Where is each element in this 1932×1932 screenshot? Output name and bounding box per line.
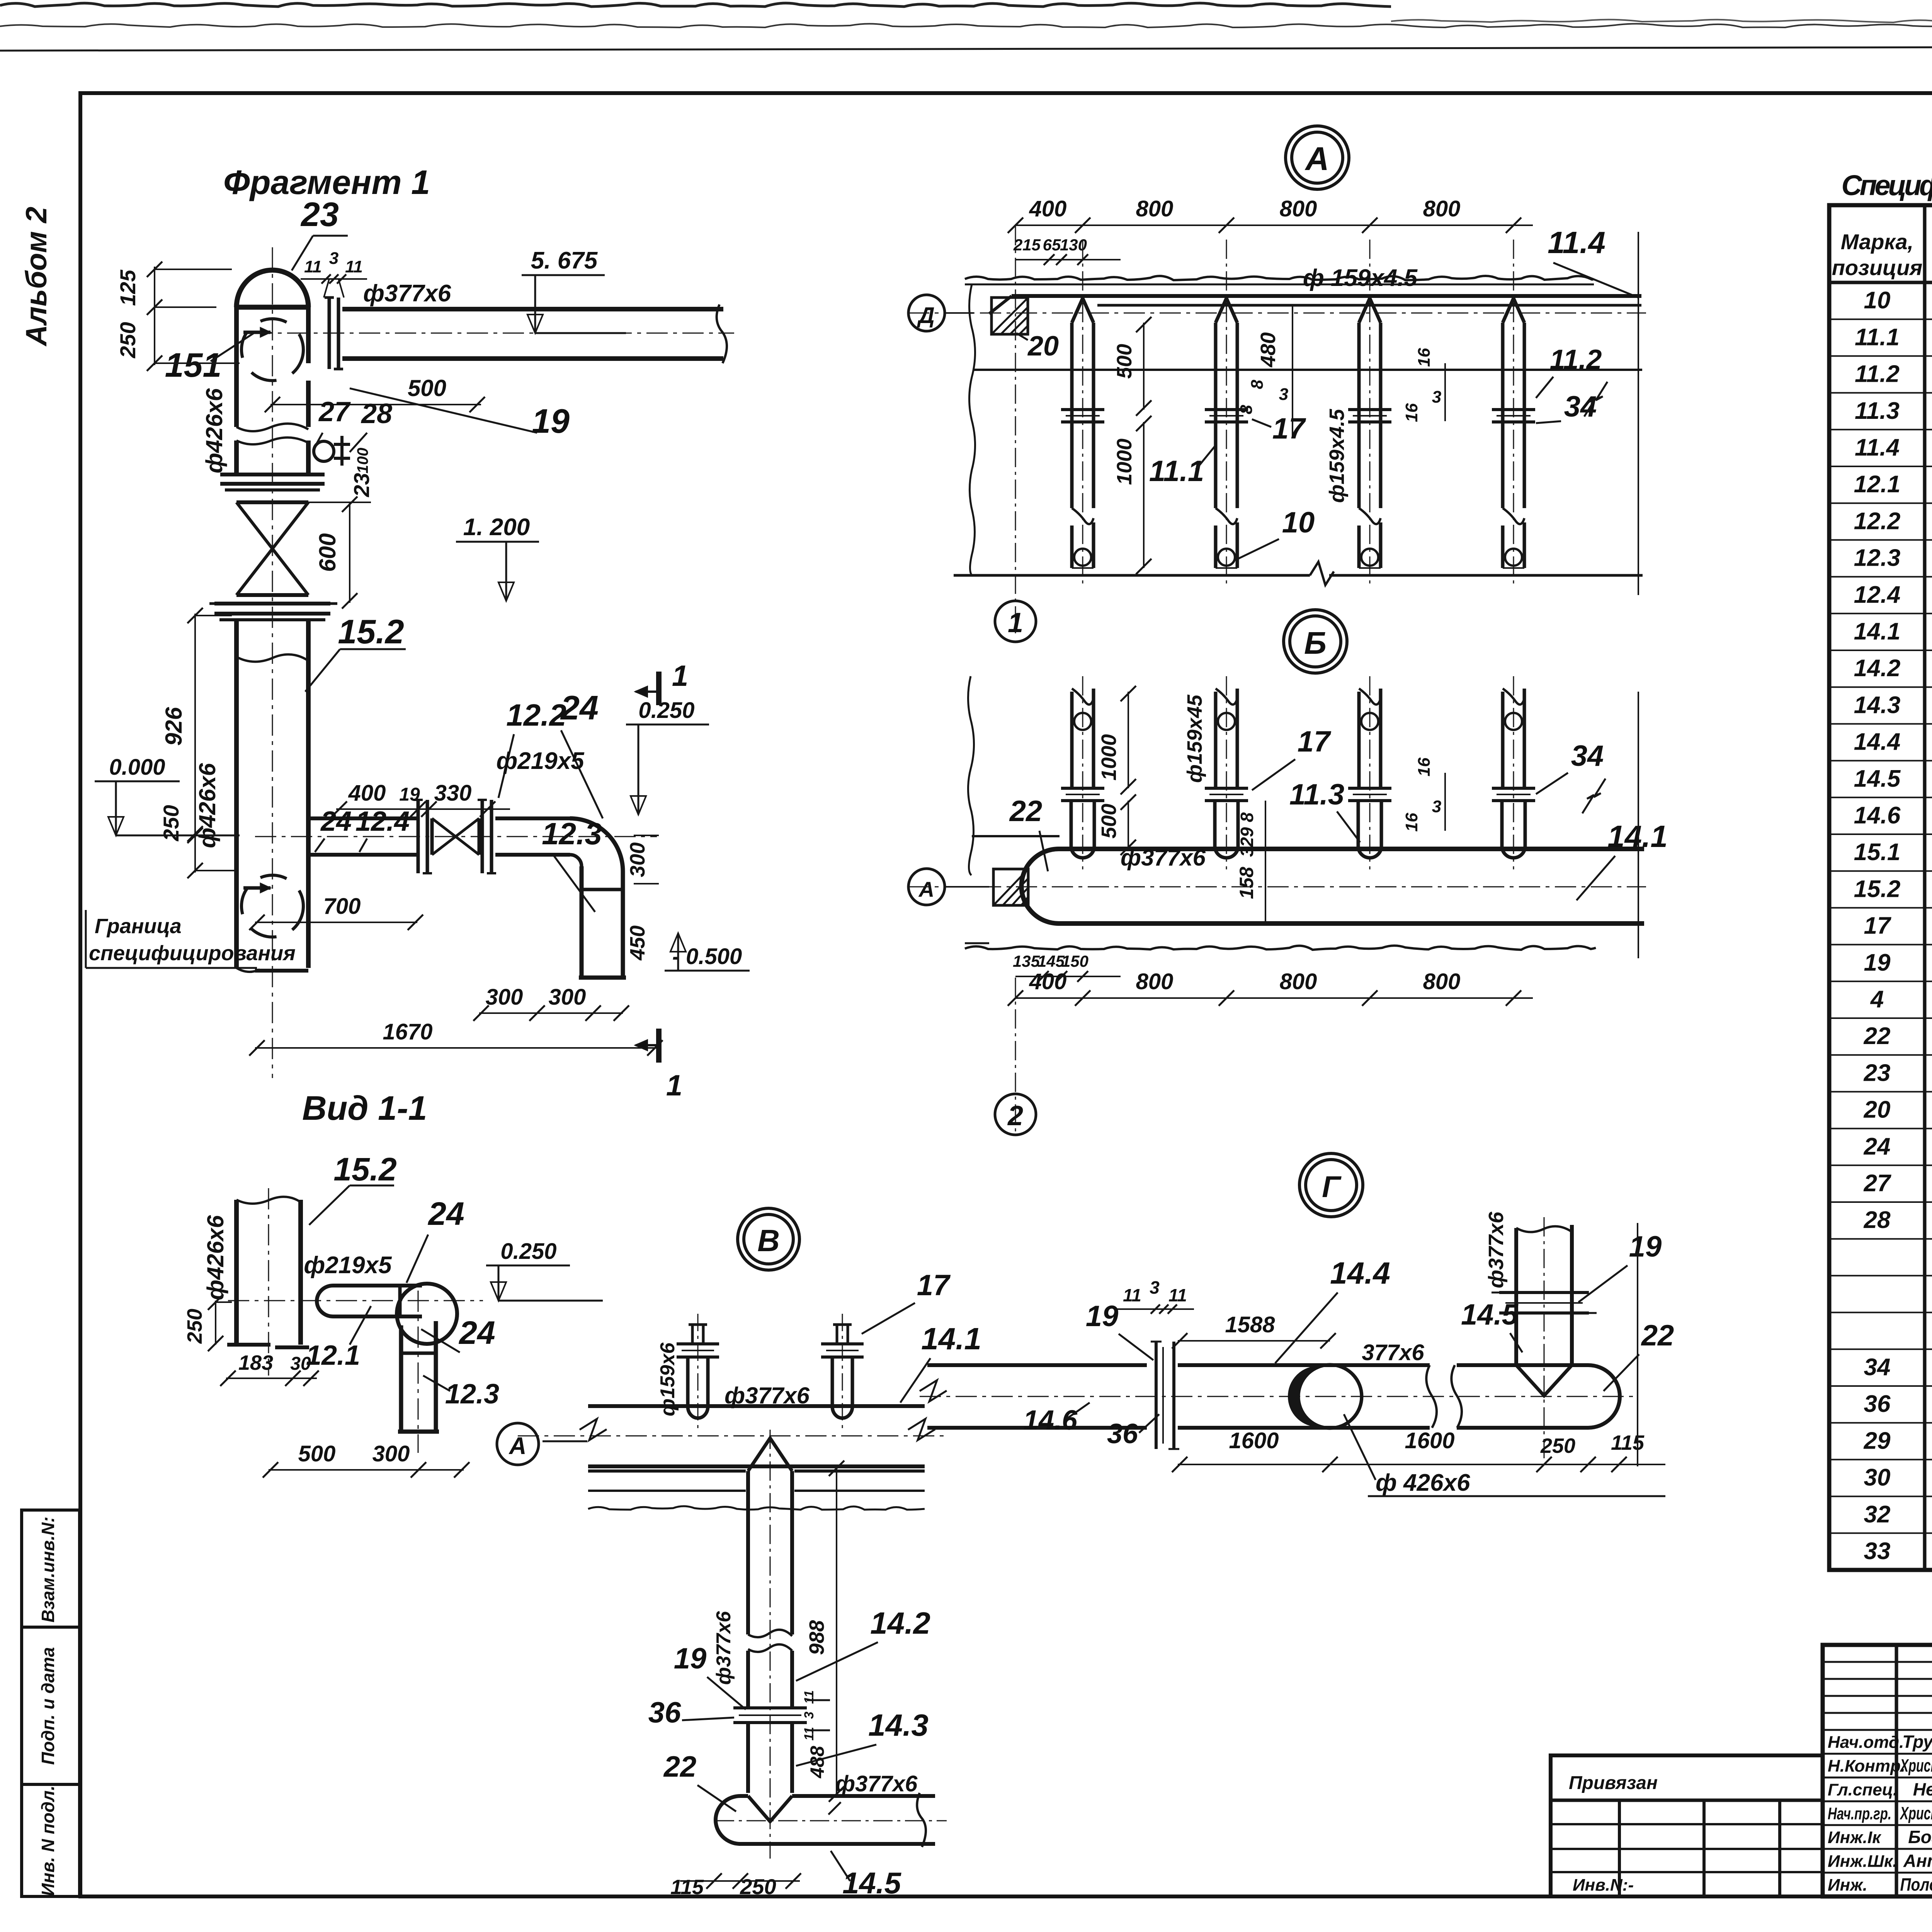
svg-text:1600: 1600 <box>1405 1428 1454 1453</box>
node A collector 159 <box>989 296 1641 314</box>
spec table header <box>1832 215 1932 280</box>
svg-text:1: 1 <box>1008 607 1023 638</box>
svg-text:0.000: 0.000 <box>109 755 165 780</box>
node B label 14.1 <box>1577 819 1668 900</box>
node V centerline stub <box>543 1440 587 1442</box>
dim 600 <box>308 497 371 609</box>
node V lower wall lines <box>588 1471 925 1510</box>
swirl circle bottom <box>241 875 303 937</box>
svg-text:Граница: Граница <box>95 915 182 938</box>
svg-text:500: 500 <box>298 1441 336 1466</box>
svg-text:11.4: 11.4 <box>1548 225 1605 260</box>
branch pipe 12.4 <box>308 818 417 855</box>
svg-text:- 0.500: - 0.500 <box>672 944 742 969</box>
svg-text:19: 19 <box>1629 1230 1662 1263</box>
node G left pipe 14.6 <box>920 1365 1147 1428</box>
svg-text:8: 8 <box>1248 379 1267 389</box>
svg-text:34: 34 <box>1864 1354 1891 1381</box>
torn paper edge top <box>0 3 1932 27</box>
svg-text:Взам.инв.N:: Взам.инв.N: <box>38 1517 58 1622</box>
svg-text:36: 36 <box>1107 1418 1138 1449</box>
svg-text:ф426х6: ф426х6 <box>202 1215 228 1300</box>
svg-text:Г: Г <box>1322 1170 1342 1204</box>
svg-text:Антонова: Антонова <box>1903 1850 1932 1871</box>
svg-text:11: 11 <box>1168 1285 1187 1305</box>
svg-text:22: 22 <box>1864 1023 1891 1049</box>
svg-text:300: 300 <box>486 985 523 1010</box>
node A label 34 <box>1536 390 1597 423</box>
svg-text:Полоновская: Полоновская <box>1900 1874 1932 1895</box>
svg-text:ф159х6: ф159х6 <box>656 1342 679 1417</box>
node V label 17 <box>862 1269 951 1334</box>
node A break z right <box>1584 382 1607 417</box>
svg-text:3: 3 <box>329 249 338 268</box>
svg-text:14.2: 14.2 <box>1854 655 1901 682</box>
svg-text:ф377х6: ф377х6 <box>835 1771 918 1796</box>
svg-text:Нечаева: Нечаева <box>1913 1779 1932 1799</box>
svg-text:14.4: 14.4 <box>1854 729 1901 755</box>
svg-text:11.1: 11.1 <box>1149 455 1204 488</box>
svg-text:3: 3 <box>1279 385 1288 404</box>
node B marker circle 2 <box>995 1094 1036 1135</box>
node B riser 3 <box>1348 676 1391 869</box>
svg-text:24: 24 <box>320 806 352 837</box>
node A labels 16 3 16 right <box>1402 348 1445 422</box>
node A riser 2 <box>1205 240 1248 587</box>
svg-text:23: 23 <box>349 473 374 497</box>
svg-text:988: 988 <box>805 1620 828 1655</box>
svg-text:14.1: 14.1 <box>1854 618 1901 645</box>
svg-text:500: 500 <box>1097 804 1121 838</box>
node G centerlines <box>920 1396 1638 1397</box>
svg-text:12.1: 12.1 <box>1854 471 1901 498</box>
node G dims bottom <box>1172 1428 1665 1472</box>
node A dims 215 65 130 <box>1013 236 1121 265</box>
svg-text:300: 300 <box>549 985 586 1010</box>
label ф426х6 lower <box>194 763 220 848</box>
node V label f377 rotated <box>713 1611 735 1685</box>
svg-text:27: 27 <box>318 396 351 427</box>
node G label 19 right <box>1578 1230 1662 1302</box>
svg-text:12.3: 12.3 <box>1854 545 1901 571</box>
svg-text:151: 151 <box>165 346 222 384</box>
dim 250 bottom left <box>159 805 236 878</box>
svg-text:29: 29 <box>1864 1427 1891 1454</box>
node V marker <box>738 1208 799 1270</box>
vid label 12.1 <box>306 1306 371 1371</box>
spec table title <box>1842 169 1932 201</box>
node B marker <box>1284 610 1347 673</box>
svg-text:Нач.отд.: Нач.отд. <box>1828 1733 1904 1752</box>
svg-text:300: 300 <box>372 1441 410 1466</box>
node B axis line 2 <box>1015 978 1016 1132</box>
svg-text:10: 10 <box>1282 506 1315 539</box>
node G label 14.4 <box>1275 1256 1390 1363</box>
svg-text:115: 115 <box>670 1876 704 1899</box>
node B dims 400 800x3 <box>1008 969 1533 1006</box>
valve (gate) <box>236 502 308 595</box>
swirl circle (rotation mark) <box>241 319 303 381</box>
svg-text:11.2: 11.2 <box>1855 361 1900 388</box>
svg-text:12.3: 12.3 <box>542 816 602 851</box>
dim 500 <box>265 375 485 412</box>
node V centerline <box>518 1435 947 1437</box>
svg-text:480: 480 <box>1257 332 1280 367</box>
svg-text:0.250: 0.250 <box>638 698 694 723</box>
svg-text:250: 250 <box>1540 1434 1575 1458</box>
svg-text:24: 24 <box>1864 1133 1891 1160</box>
node V label 14.3 <box>796 1708 929 1766</box>
svg-text:800: 800 <box>1136 196 1173 221</box>
node A centerline <box>908 313 1646 314</box>
node G label 19 left <box>1086 1300 1153 1360</box>
centerline branch <box>255 836 657 837</box>
svg-text:329 8: 329 8 <box>1237 812 1257 857</box>
svg-text:115: 115 <box>1611 1431 1645 1454</box>
node B dim 158 329 8 <box>1236 801 1265 923</box>
label 19 <box>350 388 570 440</box>
node V label 14.2 <box>796 1606 930 1681</box>
svg-text:Спецификация материалов на: Спецификация материалов на водораспредел… <box>1842 169 1932 201</box>
svg-text:800: 800 <box>1136 969 1173 994</box>
label 23 <box>292 195 348 270</box>
svg-text:16: 16 <box>1402 813 1421 832</box>
svg-text:14.6: 14.6 <box>1854 802 1901 829</box>
label 151 <box>165 332 255 384</box>
svg-text:ф159х4.5: ф159х4.5 <box>1325 409 1349 503</box>
dims 400 19 330 <box>332 781 510 817</box>
node V dim 988 <box>805 1461 844 1802</box>
pipe 377x6 horizontal <box>342 304 727 363</box>
svg-text:3: 3 <box>1150 1277 1160 1298</box>
svg-text:Богачева: Богачева <box>1908 1827 1932 1847</box>
svg-text:250: 250 <box>159 805 183 841</box>
svg-text:11: 11 <box>802 1727 816 1740</box>
svg-text:Д: Д <box>917 303 935 328</box>
svg-text:Инв.N:-: Инв.N:- <box>1573 1876 1634 1895</box>
node G label 22 <box>1604 1319 1674 1391</box>
svg-text:11: 11 <box>345 257 363 276</box>
svg-text:15.2: 15.2 <box>1854 876 1901 902</box>
node V pipe 14.3 <box>748 1723 792 1793</box>
svg-text:ф426х6: ф426х6 <box>201 388 227 473</box>
svg-text:12.1: 12.1 <box>306 1340 360 1371</box>
svg-text:15.2: 15.2 <box>338 612 404 651</box>
node G marker <box>1299 1153 1363 1217</box>
svg-text:488: 488 <box>806 1746 828 1779</box>
node A marker circle 1 <box>995 601 1036 642</box>
svg-text:15.1: 15.1 <box>1854 839 1901 866</box>
svg-text:ф377х6: ф377х6 <box>363 280 451 307</box>
node A axis line 1 <box>1015 226 1016 638</box>
node G tee circle <box>1289 1365 1362 1428</box>
node V elbow bottom 14.5 <box>716 1793 935 1847</box>
label 12.3 <box>542 816 602 912</box>
svg-text:ф219х5: ф219х5 <box>304 1252 392 1279</box>
svg-text:1600: 1600 <box>1229 1428 1279 1453</box>
node G right riser f377 <box>1516 1225 1572 1396</box>
svg-text:Нач.пр.гр.: Нач.пр.гр. <box>1828 1804 1891 1823</box>
node A riser 1 <box>1061 240 1104 587</box>
node G label 14.5 <box>1461 1298 1522 1352</box>
svg-text:800: 800 <box>1423 196 1461 221</box>
svg-text:158: 158 <box>1236 867 1257 899</box>
spec table rows <box>1854 287 1932 1565</box>
level 0.000 <box>95 755 240 835</box>
svg-text:ф377х6: ф377х6 <box>713 1611 735 1685</box>
node V nozzle at 2180 <box>821 1314 864 1430</box>
svg-text:Христофориди: Христофориди <box>1899 1755 1932 1776</box>
node B riser 2 <box>1205 676 1248 869</box>
svg-text:145: 145 <box>1037 952 1065 970</box>
node A label 11.1 <box>1149 444 1216 488</box>
label 23 small <box>349 473 374 497</box>
node V nozzle at 1806 <box>677 1314 719 1430</box>
svg-text:19: 19 <box>399 784 420 805</box>
svg-text:14.4: 14.4 <box>1330 1256 1390 1290</box>
svg-text:14.2: 14.2 <box>870 1606 930 1640</box>
svg-text:800: 800 <box>1280 196 1317 221</box>
svg-text:700: 700 <box>323 894 361 919</box>
svg-text:28: 28 <box>361 398 392 429</box>
node A dim 1000 <box>1113 416 1151 574</box>
labels 24 12.4 bottom <box>315 806 410 852</box>
svg-text:Инж.Шк.: Инж.Шк. <box>1828 1852 1897 1871</box>
svg-text:12.2: 12.2 <box>506 698 566 732</box>
node V dims 115 250 <box>670 1873 801 1899</box>
svg-text:11.4: 11.4 <box>1855 434 1900 461</box>
svg-text:Н.Контр.: Н.Контр. <box>1828 1757 1905 1776</box>
svg-text:Марка,: Марка, <box>1841 230 1913 254</box>
node A wall left <box>969 284 1642 576</box>
svg-text:16: 16 <box>1415 757 1434 776</box>
svg-text:215: 215 <box>1013 236 1041 254</box>
node A ceiling wavy <box>965 276 1594 284</box>
node V labels 19 36 <box>674 1642 746 1709</box>
svg-text:1. 200: 1. 200 <box>463 514 530 541</box>
svg-text:11: 11 <box>1123 1285 1141 1305</box>
boundary note <box>86 910 296 968</box>
svg-text:1000: 1000 <box>1113 439 1136 485</box>
node A marker <box>1286 126 1349 189</box>
svg-text:специфицирования: специфицирования <box>89 942 296 965</box>
node V label f377x6 <box>724 1383 810 1408</box>
svg-text:24: 24 <box>427 1196 464 1232</box>
svg-text:28: 28 <box>1864 1207 1891 1233</box>
svg-text:3: 3 <box>1432 797 1441 816</box>
svg-text:Б: Б <box>1304 626 1327 661</box>
node B wall left and bottom wavy <box>965 676 1596 950</box>
svg-text:17: 17 <box>917 1269 951 1302</box>
vid branch capsule <box>317 1286 422 1316</box>
node B break z <box>1582 779 1605 813</box>
svg-text:ф377х6: ф377х6 <box>724 1383 810 1408</box>
level 0.250 fragment <box>626 698 709 815</box>
svg-text:377х6: 377х6 <box>1362 1340 1424 1365</box>
vid 1-1 title <box>302 1089 427 1127</box>
svg-text:11.2: 11.2 <box>1550 344 1602 375</box>
dim 11 3 11 bolts <box>301 249 367 298</box>
node A dim 500 <box>1113 317 1151 416</box>
flange pair above valve <box>220 474 325 490</box>
svg-text:500: 500 <box>1113 344 1136 379</box>
label ф377х6 <box>363 280 451 307</box>
label 24 top <box>560 689 603 818</box>
node G right cap <box>1588 1365 1620 1428</box>
node V small dims at flange <box>802 1690 816 1740</box>
branch valve <box>432 818 479 855</box>
svg-text:Вид 1-1: Вид 1-1 <box>302 1089 427 1127</box>
dim 1670 <box>249 1019 663 1056</box>
svg-text:8: 8 <box>1237 405 1256 414</box>
svg-text:14.1: 14.1 <box>921 1321 981 1356</box>
node B marker circle A <box>908 869 989 905</box>
svg-text:24: 24 <box>458 1315 495 1351</box>
node B dims 135 145 150 <box>1013 952 1121 982</box>
title block frame <box>1823 1645 1932 1896</box>
node G label f426x6 <box>1344 1414 1665 1496</box>
centerline riser <box>272 247 273 1078</box>
node B centerline <box>908 886 1646 888</box>
svg-text:22: 22 <box>663 1750 697 1783</box>
svg-text:ф377х6: ф377х6 <box>1121 845 1206 871</box>
node B riser 1 <box>1061 676 1104 869</box>
svg-text:4: 4 <box>1870 986 1884 1013</box>
svg-text:17: 17 <box>1864 913 1891 939</box>
svg-text:20: 20 <box>1027 331 1059 362</box>
node A label f159 <box>1303 265 1418 291</box>
svg-text:100: 100 <box>354 448 371 474</box>
svg-text:12.4: 12.4 <box>1854 582 1901 608</box>
coupling fitting <box>314 436 371 473</box>
fragment 1 title <box>223 163 430 201</box>
vid dims 500 300 <box>263 1441 469 1478</box>
node B label f159x45 <box>1183 694 1206 783</box>
svg-text:17: 17 <box>1272 412 1306 445</box>
svg-text:300: 300 <box>626 842 649 877</box>
svg-text:250: 250 <box>740 1874 776 1899</box>
vid pipe 426 <box>227 1197 309 1347</box>
left margin box Взам. инв. N <box>22 1510 80 1627</box>
node V flange pair 19/36 <box>733 1700 830 1730</box>
node A dim 480 8 8 3 <box>1237 305 1293 437</box>
node A label 11.2 <box>1536 344 1602 398</box>
node V pipe 14.1 <box>580 1406 935 1466</box>
svg-text:1588: 1588 <box>1225 1312 1275 1337</box>
svg-text:15.2: 15.2 <box>333 1151 397 1187</box>
svg-text:1: 1 <box>672 660 688 692</box>
node A right edge line <box>1638 232 1639 595</box>
dims 300 300 <box>473 985 629 1021</box>
node G labels 14.6 36 <box>1023 1403 1090 1436</box>
vid centerlines <box>268 1188 269 1376</box>
node V label f377 bottom <box>828 1771 918 1815</box>
svg-text:36: 36 <box>1864 1391 1891 1417</box>
node A label 11.4 <box>1548 225 1638 298</box>
node B label 17 <box>1252 725 1332 790</box>
svg-text:32: 32 <box>1864 1501 1891 1528</box>
node V label 22 <box>663 1750 736 1811</box>
node B riser 4 <box>1492 676 1535 869</box>
left margin box Подп. и дата <box>22 1627 80 1784</box>
svg-text:17: 17 <box>1298 725 1332 758</box>
svg-text:33: 33 <box>1864 1538 1891 1565</box>
node D marker <box>908 295 974 331</box>
node G dim 1588 <box>1172 1312 1336 1349</box>
svg-text:20: 20 <box>1864 1097 1891 1123</box>
svg-text:36: 36 <box>648 1696 681 1729</box>
svg-text:11.3: 11.3 <box>1289 778 1344 811</box>
svg-text:24: 24 <box>560 689 599 727</box>
svg-text:Подп. и дата: Подп. и дата <box>38 1647 58 1765</box>
label ф426х6 riser <box>201 388 227 473</box>
svg-text:30: 30 <box>1864 1464 1891 1491</box>
svg-text:150: 150 <box>1061 952 1088 970</box>
svg-text:19: 19 <box>1086 1300 1119 1333</box>
svg-text:3: 3 <box>802 1711 816 1719</box>
svg-text:А: А <box>918 877 934 901</box>
svg-text:Привязан: Привязан <box>1569 1773 1658 1793</box>
svg-text:14.3: 14.3 <box>1854 692 1901 718</box>
node A label 10 <box>1236 506 1315 560</box>
svg-text:1: 1 <box>666 1069 682 1102</box>
vid label 15.2 <box>309 1151 397 1225</box>
svg-text:400: 400 <box>348 781 386 806</box>
node B labels 16 3 16 <box>1402 757 1445 832</box>
section mark 1 bottom <box>636 1029 682 1102</box>
node A label 20 <box>1016 331 1059 362</box>
spec table grid <box>1829 205 1932 1570</box>
svg-text:2: 2 <box>1007 1100 1023 1131</box>
svg-text:12.3: 12.3 <box>445 1379 499 1410</box>
section mark 1 top <box>636 660 688 705</box>
svg-text:23: 23 <box>300 195 339 233</box>
svg-text:5. 675: 5. 675 <box>531 247 598 274</box>
svg-text:Альбом 2: Альбом 2 <box>20 207 53 347</box>
svg-text:19: 19 <box>674 1642 707 1675</box>
node V centerlines <box>770 1430 771 1859</box>
node B hatched column <box>993 869 1028 905</box>
svg-text:34: 34 <box>1564 390 1597 423</box>
svg-text:135: 135 <box>1013 952 1040 970</box>
dim 700 <box>249 894 423 930</box>
dim 300 450 right <box>626 835 659 961</box>
svg-text:926: 926 <box>161 707 187 746</box>
vid vertical pipe down <box>398 1321 439 1432</box>
svg-text:11.3: 11.3 <box>1855 398 1900 424</box>
node G label f377 rotated <box>1485 1211 1508 1288</box>
label 15.2 <box>305 612 406 692</box>
svg-text:330: 330 <box>434 781 472 806</box>
node A hatched column <box>992 298 1028 334</box>
paper edge rule top <box>0 46 1932 51</box>
svg-text:22: 22 <box>1009 795 1043 828</box>
svg-text:Инж.Iк: Инж.Iк <box>1828 1828 1882 1847</box>
node G right edge dim line <box>1637 1223 1638 1466</box>
svg-text:ф 426х6: ф 426х6 <box>1376 1469 1470 1496</box>
vid label 24 upper <box>406 1196 464 1283</box>
node A riser 3 <box>1348 240 1391 587</box>
node B dim 500 <box>1097 794 1136 855</box>
svg-text:250: 250 <box>183 1309 206 1344</box>
dim 926 <box>161 608 232 842</box>
svg-text:ф219х5: ф219х5 <box>496 748 585 774</box>
svg-text:65: 65 <box>1043 236 1061 254</box>
svg-text:12.2: 12.2 <box>1854 508 1901 534</box>
svg-text:11: 11 <box>304 257 322 276</box>
left margin label Альбом 2 <box>20 207 53 347</box>
node G riser flange pair <box>1492 1293 1597 1313</box>
